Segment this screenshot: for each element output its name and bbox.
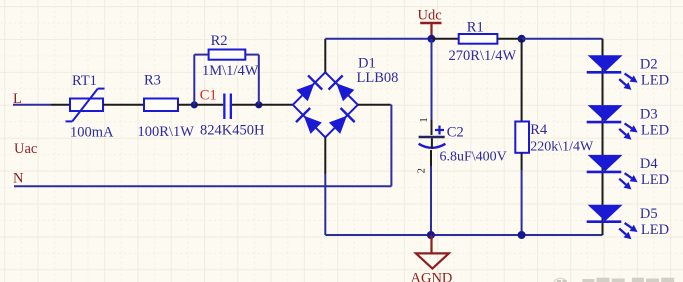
svg-text:1M\1/4W: 1M\1/4W (202, 63, 259, 79)
resistor R3 (144, 73, 178, 112)
junction node B (255, 101, 262, 108)
LED D2 (587, 55, 669, 90)
svg-text:D5: D5 (640, 206, 658, 222)
svg-text:1: 1 (419, 117, 430, 122)
svg-text:LED: LED (641, 122, 669, 138)
svg-text:100mA: 100mA (70, 125, 114, 141)
pin bridge right corner (358, 104, 390, 106)
svg-text:R1: R1 (467, 20, 484, 36)
svg-text:270R\1/4W: 270R\1/4W (449, 48, 517, 64)
svg-text:Uac: Uac (14, 141, 37, 157)
svg-text:6.8uF\400V: 6.8uF\400V (440, 150, 507, 165)
svg-text:R4: R4 (530, 122, 548, 138)
capacitor C1 (200, 88, 232, 119)
svg-text:100R\1W: 100R\1W (138, 124, 195, 140)
svg-text:824K450H: 824K450H (200, 123, 265, 139)
svg-text:N: N (13, 171, 24, 187)
resistor R2 (209, 33, 246, 60)
value label 270R\1/4W (449, 48, 517, 64)
wire node A to C1 (194, 104, 223, 106)
pin bridge top to rail (324, 39, 326, 73)
LED D3 (587, 105, 669, 140)
svg-text:R2: R2 (211, 33, 228, 49)
junction node C (518, 35, 526, 43)
pin number 2 (417, 168, 428, 173)
svg-text:LED: LED (641, 222, 669, 238)
svg-text:2: 2 (417, 168, 428, 173)
wire bridge right to N (390, 105, 391, 186)
resistor R1 (459, 20, 498, 44)
svg-text:220k\1/4W: 220k\1/4W (530, 139, 594, 154)
value label 220k\1/4W (530, 139, 594, 154)
wire C1 to node B (232, 104, 259, 106)
wire node C down to R4 (521, 39, 523, 122)
value label 6.8uF\400V (440, 150, 507, 165)
value label 100R\1W (138, 124, 195, 140)
LED D4 (587, 155, 669, 190)
wire R4 to bottom rail (521, 153, 523, 235)
resistor RT1 (fuse/PTC) (66, 73, 105, 121)
svg-text:Udc: Udc (418, 8, 442, 24)
wire R3 to node A (178, 104, 194, 106)
decorative (553, 278, 674, 282)
wire N (14, 185, 391, 187)
svg-text:D2: D2 (640, 57, 658, 73)
pin number 1 (419, 117, 430, 122)
svg-text:D4: D4 (640, 156, 658, 172)
pin bridge bottom (324, 137, 326, 174)
resistor R4 (515, 122, 548, 153)
wire node C to LED column (522, 38, 603, 40)
wire R2 branch left riser (194, 55, 208, 105)
junction node D (C2/AGND) (427, 231, 435, 239)
wire node B to bridge D1 (259, 104, 293, 106)
value label 100mA (70, 125, 114, 141)
wire bottom rail (325, 234, 602, 236)
wire R2 branch right riser (245, 55, 258, 105)
junction node Udc (428, 35, 436, 43)
wire RT1 to R3 (103, 104, 144, 106)
svg-text:RT1: RT1 (72, 73, 97, 89)
svg-text:D3: D3 (640, 106, 658, 122)
wire L input stub (13, 104, 51, 106)
wire R1 to node C (497, 38, 521, 40)
wire LED column (602, 39, 604, 235)
power port Udc (418, 8, 442, 39)
ground AGND (411, 235, 453, 282)
bridge rectifier D1 LLB08 (293, 56, 399, 138)
node N (net label) (13, 171, 24, 187)
svg-text:C1: C1 (200, 88, 217, 104)
wire C2 to bottom rail (430, 150, 432, 235)
value label 824K450H (200, 123, 265, 139)
svg-text:R3: R3 (144, 73, 161, 89)
value label 1M\1/4W (202, 63, 259, 79)
svg-text:LED: LED (641, 172, 669, 188)
wire Udc node to R1 (432, 38, 459, 40)
junction node A (191, 101, 198, 108)
LED D5 (587, 205, 669, 240)
svg-text:C2: C2 (447, 125, 464, 141)
junction node E (R4) (518, 231, 526, 239)
wire bridge bottom to rail (324, 174, 326, 235)
wire top rail to Udc node (325, 38, 431, 40)
svg-text:AGND: AGND (411, 271, 453, 282)
svg-text:LLB08: LLB08 (357, 70, 399, 86)
wire Udc node down to C2 (431, 39, 433, 135)
node L (net label) (13, 91, 22, 107)
node Uac (net label) (14, 141, 37, 157)
capacitor C2 (polarized) (419, 125, 464, 149)
wire/pin to RT1 (51, 104, 70, 106)
svg-text:LED: LED (641, 73, 669, 89)
